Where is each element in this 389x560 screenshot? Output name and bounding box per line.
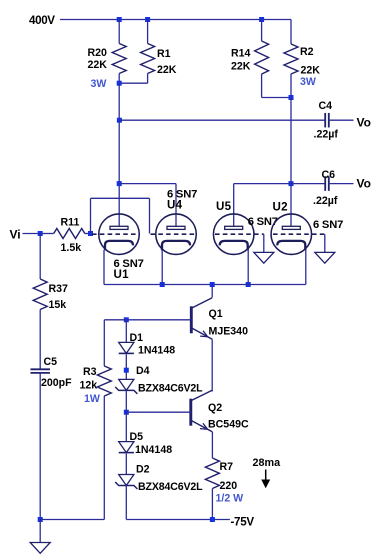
svg-text:22K: 22K [231,61,251,73]
wire ground stub [39,520,41,543]
wire U1 cathode [103,250,105,285]
wire 400V rail [60,19,291,21]
svg-text:1.5k: 1.5k [61,242,82,254]
wire Q1 emitter to Q2 [211,339,213,369]
capacitor C5 [30,356,72,389]
svg-text:Vo: Vo [357,177,371,191]
junction U1 grid [88,231,93,236]
wire Q1 collector [211,285,213,298]
resistor R11 [40,217,90,255]
svg-text:-75V: -75V [231,516,255,529]
resistor R20 [88,20,127,91]
wire grid jumper U1-U4 [90,198,92,233]
junction U5/U2 plates [289,181,294,186]
svg-text:U4: U4 [167,199,183,212]
svg-text:U1: U1 [114,268,130,281]
wire U4 cathode [161,250,163,285]
junction R14/R2 bottom [289,95,294,100]
junction U5 cathode bus [246,282,251,287]
triode U5 [213,200,277,254]
svg-text:22K: 22K [88,59,108,71]
svg-text:15k: 15k [49,299,67,311]
svg-text:R37: R37 [49,283,69,295]
svg-text:.22µf: .22µf [314,129,339,141]
svg-text:U5: U5 [216,200,232,213]
svg-text:22K: 22K [301,65,321,77]
wire Vi input [23,233,41,235]
svg-text:D5: D5 [130,431,144,443]
svg-text:MJE340: MJE340 [209,326,249,338]
junction R20/R1 bottom [117,81,122,86]
wire U4 plate branch [119,183,176,185]
wire U5 grid to ground [263,234,265,252]
wire D4-D5 link [125,390,127,441]
junction Q2 base/D4/D5 [124,410,129,415]
svg-text:1N4148: 1N4148 [138,345,175,357]
transistor Q1 [191,298,248,340]
junction Q1 base/D1/R3 [124,317,129,322]
svg-text:3W: 3W [300,76,316,88]
transistor Q2 [191,390,249,432]
wire D5-D2 link [125,454,127,475]
junction U4 cathode bus [160,282,165,287]
zener D2 [115,464,203,493]
svg-text:12k: 12k [80,380,98,392]
junction R7 / -75V bus [210,517,215,522]
svg-text:1N4148: 1N4148 [135,444,172,456]
wire D1 anode lead [125,320,127,343]
svg-text:1/2 W: 1/2 W [216,493,244,505]
svg-text:400V: 400V [29,14,55,27]
resistor R14 [231,20,291,98]
op U4 grid dashes [151,233,195,235]
wire Q2 base [126,411,191,413]
op U5 grid dashes [215,233,264,235]
resistor R3 [80,320,127,520]
wire Q1 base [126,319,191,321]
ground main [30,543,50,554]
svg-text:R3: R3 [83,366,97,378]
svg-text:200pF: 200pF [41,377,72,389]
svg-text:22K: 22K [157,64,177,76]
junction R20 top [117,17,122,22]
svg-text:C6: C6 [322,169,336,181]
capacitor C4 [314,100,339,141]
resistor R7 [205,458,243,520]
svg-text:Vo: Vo [357,116,371,130]
ground U2 grid [315,252,335,263]
svg-text:BZX84C6V2L: BZX84C6V2L [138,481,203,493]
svg-text:28ma: 28ma [253,457,282,469]
svg-text:3W: 3W [91,78,107,90]
diode D1 [119,332,176,357]
triode U1 [99,214,144,281]
svg-text:C4: C4 [319,100,333,112]
junction D1/D4 [124,368,129,373]
wire right plate column [290,98,292,227]
ground U5 grid [254,252,274,263]
svg-text:BZX84C6V2L: BZX84C6V2L [138,383,203,395]
svg-text:R11: R11 [61,217,80,229]
arrow 28ma [265,470,267,482]
wire C6 line [291,183,325,185]
wire cathode bus [162,284,248,286]
junction C4 tap [117,118,122,123]
junction ground bus [38,517,43,522]
wire R37 to C5 [39,310,41,370]
diode D5 [119,431,173,456]
wire U2 cathode [305,250,307,285]
svg-text:BC549C: BC549C [208,419,249,431]
resistor R37 [33,234,68,312]
svg-text:6 SN7: 6 SN7 [313,219,343,231]
svg-text:Q1: Q1 [209,308,223,320]
wire D1-D4 link [125,354,127,379]
wire ground bus [40,519,104,521]
svg-text:D2: D2 [136,464,150,476]
wire D2 to -75V bus [125,486,127,520]
wire C5 to ground bus [39,373,41,520]
junction Q1 collector bus [210,282,215,287]
wire Q2 emitter to R7 [211,432,213,458]
capacitor C6 [313,169,338,207]
resistor R1 [119,20,177,84]
zener D4 [115,365,203,395]
triode U4 [156,189,197,255]
wire U2 grid to ground [324,234,326,252]
triode U2 [271,201,343,255]
wire U5 plate branch [234,183,291,185]
svg-text:C5: C5 [44,356,58,368]
svg-text:R14: R14 [231,48,251,60]
wire U5 cathode [247,250,249,285]
junction R14 top [259,17,264,22]
svg-text:R7: R7 [220,461,234,473]
wire left plate column [118,83,120,226]
op U1 grid dashes [92,233,138,235]
svg-text:R2: R2 [300,46,314,58]
svg-text:D1: D1 [130,332,144,344]
wire C4 line [119,119,325,121]
svg-text:220: 220 [220,480,238,492]
svg-text:R20: R20 [88,47,108,59]
svg-text:R1: R1 [157,48,171,60]
svg-text:D4: D4 [136,365,150,377]
wire C4 to Vo [329,119,354,121]
resistor R2 [284,20,320,98]
svg-text:Q2: Q2 [208,402,222,414]
junction R1 top [145,17,150,22]
wire C6 to Vo [329,183,354,185]
op U2 grid dashes [273,233,325,235]
svg-text:U2: U2 [273,201,288,214]
svg-text:1W: 1W [84,393,100,405]
svg-text:.22µf: .22µf [313,195,338,207]
junction Vi/R37 [38,231,43,236]
svg-text:Vi: Vi [10,228,21,242]
junction U1/U4 plates [117,181,122,186]
